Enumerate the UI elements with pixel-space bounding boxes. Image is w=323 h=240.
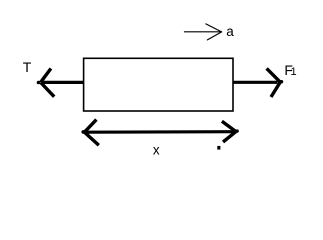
- svg-text:x: x: [153, 142, 160, 157]
- F1 arrow tip nub: [280, 80, 283, 83]
- small dot (period mark): [217, 146, 220, 150]
- dimension arrow x (double-headed, thick): [85, 120, 236, 146]
- svg-text:1: 1: [291, 66, 297, 78]
- x arrow left tip nub: [81, 130, 85, 134]
- x arrow right tip nub: [235, 129, 238, 132]
- force arrow F1 (thick, pointing right): [233, 68, 280, 97]
- svg-text:T: T: [23, 59, 32, 75]
- force arrow T (thick, pointing left): [41, 69, 83, 97]
- block (rectangle body): [84, 58, 233, 111]
- acceleration arrow a (thin): [185, 24, 222, 40]
- svg-text:a: a: [226, 24, 234, 39]
- T arrow tip nub: [37, 81, 41, 85]
